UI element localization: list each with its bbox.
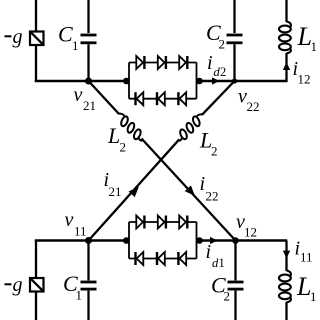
arrow i22 on diagonal 1 pointing down-right	[185, 185, 195, 196]
capacitor C2 (top)	[227, 34, 243, 45]
inductor L2 left coil on diagonal 1	[119, 114, 143, 141]
diode D1 top-upper (right-pointing)	[136, 56, 186, 105]
negative conductance box -g (top)	[30, 32, 44, 46]
svg-text:1: 1	[72, 38, 79, 53]
wire C2 top vertical	[233, 0, 235, 33]
svg-text:1: 1	[76, 288, 83, 303]
diode bars bottom network	[134, 216, 188, 266]
capacitor C1 (top)	[81, 34, 97, 45]
top rail right segment	[197, 80, 288, 83]
svg-text:1: 1	[219, 256, 225, 270]
wire L1 bottom from rail	[285, 241, 287, 272]
svg-text:i: i	[206, 241, 212, 263]
svg-text:g: g	[13, 26, 23, 48]
label -g (bottom) minus stroke	[5, 283, 12, 285]
wire C1 bottom to edge	[87, 291, 89, 320]
diagonal 1 lower segment coil to v12	[142, 139, 236, 241]
svg-text:22: 22	[206, 189, 219, 204]
node v21 dot	[85, 78, 92, 85]
diode bars top network	[134, 56, 188, 105]
capacitor C2 (bottom) plates	[228, 281, 244, 291]
svg-text:2: 2	[120, 140, 127, 155]
wire C1 bottom from rail	[87, 241, 89, 281]
diode network top: upper branch wire	[129, 62, 197, 64]
diagonal 2 lower segment coil to v11	[89, 139, 180, 240]
svg-text:21: 21	[83, 98, 96, 113]
inductor L1 (top) coil	[279, 22, 291, 54]
diode network top: left bracket	[129, 63, 197, 99]
wire C1 to top rail	[87, 44, 89, 82]
diodes top-lower (left-pointing)	[137, 92, 144, 105]
node dot diode-net top right	[196, 78, 203, 85]
arrow i11 down	[283, 251, 290, 259]
wire C2 bottom from rail	[234, 241, 236, 281]
top rail left segment	[35, 80, 129, 83]
diagonal 1 upper segment v21 to L2 coil	[89, 81, 236, 241]
diode network bottom: right bracket	[196, 222, 198, 259]
svg-text:i: i	[207, 52, 213, 74]
svg-text:12: 12	[298, 72, 311, 87]
svg-text:C: C	[58, 22, 73, 47]
svg-text:i: i	[200, 173, 206, 195]
svg-text:2: 2	[211, 144, 218, 159]
diodes bottom-upper (right-pointing)	[136, 216, 186, 266]
arrow id2 on top rail	[212, 77, 220, 84]
wire -g box to top rail	[35, 45, 37, 83]
node dot diode-net bottom left	[123, 237, 130, 244]
wire top-left vertical into -g box	[35, 0, 37, 32]
arrow i21 on diagonal 2 pointing up-right	[129, 187, 139, 198]
svg-text:2: 2	[219, 37, 226, 52]
wire C1 top vertical	[87, 0, 89, 33]
node v22 dot	[232, 78, 237, 83]
diodes bottom-lower (left-pointing)	[137, 252, 144, 265]
svg-text:v: v	[74, 84, 83, 106]
node dot diode-net top left	[123, 78, 130, 85]
svg-text:L: L	[107, 123, 120, 148]
wire L1 top vertical	[285, 0, 287, 22]
inductor L2 right coil on diagonal 2	[178, 114, 202, 140]
svg-text:11: 11	[300, 250, 313, 265]
arrow i12 up	[283, 62, 290, 70]
wire -g box to bottom edge	[35, 292, 37, 320]
diagonal 2 upper segment v22 to L2 coil	[202, 81, 235, 115]
label -g (top) minus stroke	[5, 35, 12, 37]
svg-text:2: 2	[224, 289, 231, 304]
wire C2 to top rail	[233, 44, 235, 82]
svg-text:1: 1	[311, 39, 318, 54]
diode network top: lower branch wire	[129, 98, 197, 100]
diode network top: right bracket	[196, 63, 198, 99]
bottom rail right segment	[197, 239, 288, 242]
node dot diode-net bottom right	[196, 237, 203, 244]
node v12 dot	[232, 237, 239, 244]
diode network bottom: lower branch wire	[129, 258, 197, 260]
svg-text:22: 22	[247, 99, 260, 114]
svg-text:g: g	[13, 274, 23, 296]
diode network bottom: upper branch wire	[129, 221, 197, 223]
wire bottom-left vertical rail to -g box	[35, 241, 37, 279]
wire C2 bottom to edge	[234, 291, 236, 320]
svg-text:1: 1	[310, 289, 317, 304]
svg-text:12: 12	[244, 225, 257, 240]
bottom rail left segment	[35, 239, 129, 242]
arrow id1 on bottom rail	[210, 237, 218, 244]
wire L1 bottom to edge	[285, 302, 287, 320]
svg-text:21: 21	[109, 184, 122, 199]
inductor L1 (bottom) coil	[279, 271, 291, 303]
wire L1 to top rail	[285, 53, 287, 82]
svg-text:2: 2	[220, 65, 226, 79]
svg-text:11: 11	[74, 224, 87, 239]
diode network bottom: left bracket	[129, 222, 197, 259]
node v11 dot	[85, 237, 92, 244]
negative conductance box -g (bottom)	[30, 278, 44, 292]
capacitor C1 (bottom) plates	[81, 281, 97, 291]
svg-text:v: v	[65, 209, 74, 231]
